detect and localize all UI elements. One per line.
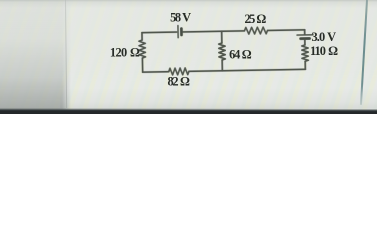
resistor R64 64ohm [219, 43, 226, 60]
svg-text:25 Ω: 25 Ω [245, 12, 267, 26]
wire right branch mid stub [304, 39, 306, 45]
battery V2 3.0V long plate [297, 34, 313, 36]
svg-text:64 Ω: 64 Ω [229, 47, 252, 61]
wire top-left segment [142, 31, 177, 34]
wire bottom right segment [189, 69, 305, 71]
svg-text:120 Ω: 120 Ω [110, 45, 140, 59]
paper texture stripes [0, 0, 377, 110]
battery V2 3.0V short plate [301, 37, 310, 40]
resistor R110 110ohm [302, 45, 309, 62]
battery V1 58V short plate [180, 29, 183, 35]
battery V1 58V long plate [177, 26, 179, 38]
edge shading top/bottom [0, 0, 377, 10]
svg-text:58 V: 58 V [170, 10, 191, 24]
page seam line [65, 0, 67, 108]
wire left branch upper stub [141, 33, 143, 40]
resistor R82 82ohm [169, 68, 189, 75]
svg-text:82 Ω: 82 Ω [168, 75, 190, 89]
wire top right segment [268, 29, 305, 32]
svg-text:3.0 V: 3.0 V [312, 30, 337, 44]
wire left branch lower stub [141, 58, 143, 72]
wire right branch lower stub [304, 61, 306, 69]
wire right branch upper stub [304, 30, 306, 34]
wire middle branch lower [221, 60, 223, 71]
left page column [0, 0, 72, 110]
wire bottom left segment [143, 71, 169, 73]
svg-text:110 Ω: 110 Ω [310, 44, 338, 58]
wire top mid segment [183, 31, 245, 32]
resistor R120 120ohm [139, 40, 146, 58]
dark desk band at bottom [0, 107, 377, 116]
resistor R25 25ohm [244, 27, 267, 34]
right teal screen edge line [360, 0, 368, 105]
wire middle branch upper [221, 31, 223, 43]
